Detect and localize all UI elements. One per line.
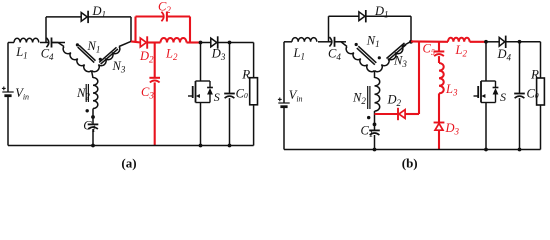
inductor L1 (14, 38, 39, 42)
dot N3 polarity (378, 56, 381, 59)
diode D1 (359, 12, 365, 21)
junction (228, 144, 232, 148)
winding N1 coil (344, 47, 374, 74)
wire (8, 145, 254, 147)
junction (91, 115, 95, 119)
wire (147, 41, 160, 43)
wire (405, 113, 419, 115)
svg-text:D3: D3 (445, 121, 460, 137)
winding N1 coil (61, 47, 91, 74)
winding N2 core (85, 84, 87, 102)
wire (506, 41, 541, 43)
wire (374, 111, 376, 130)
capacitor C0 (514, 93, 525, 95)
winding N3 core (99, 47, 116, 62)
wire (438, 130, 440, 149)
diode D2 (140, 38, 146, 47)
diode D2 (399, 110, 405, 119)
svg-text:R: R (241, 67, 250, 82)
wire (218, 42, 254, 44)
wire (366, 15, 411, 17)
svg-text:D1: D1 (374, 4, 389, 20)
svg-text:D4: D4 (497, 47, 512, 63)
svg-text:L2: L2 (165, 47, 178, 63)
wire (284, 149, 541, 151)
svg-text:N3: N3 (112, 59, 126, 75)
transistor S (481, 80, 496, 82)
capacitor C3 (149, 77, 160, 79)
wire (201, 42, 211, 44)
svg-text:D3: D3 (211, 47, 226, 63)
wire (283, 107, 285, 150)
wire (189, 17, 191, 43)
diode D4 (499, 37, 505, 46)
junction (199, 41, 203, 45)
capacitor C1 (88, 123, 99, 125)
wire (410, 16, 412, 41)
capacitor C5 (434, 51, 445, 53)
wire (485, 103, 487, 150)
wire (131, 41, 141, 42)
svg-text:C4: C4 (328, 47, 341, 63)
wire (375, 113, 399, 115)
svg-text:S: S (214, 90, 220, 104)
svg-text:R: R (530, 67, 539, 82)
wire (540, 105, 542, 150)
wire (253, 43, 255, 78)
wire (52, 42, 66, 44)
wire (136, 15, 164, 17)
capacitor C1 (369, 129, 380, 131)
wire (187, 41, 201, 43)
svg-text:L1: L1 (15, 45, 27, 61)
svg-text:C5: C5 (423, 42, 435, 58)
winding N2 coil (375, 78, 380, 112)
wire (540, 42, 542, 78)
wire (283, 42, 285, 103)
resistor R (250, 78, 258, 105)
svg-text:N1: N1 (366, 33, 380, 49)
diode D3 (211, 38, 217, 47)
transistor S (196, 80, 211, 82)
inductor L2 (448, 38, 470, 42)
svg-text:L1: L1 (293, 46, 305, 62)
inductor L2 (161, 38, 187, 43)
dot N1 polarity (355, 43, 358, 46)
wire (45, 17, 47, 43)
wire (46, 16, 81, 18)
wire (284, 41, 292, 43)
dot N1 polarity (76, 43, 79, 46)
diode D3 (435, 123, 443, 130)
battery Vin (2, 91, 13, 93)
svg-text:D2: D2 (387, 93, 402, 109)
junction (373, 148, 377, 152)
svg-text:C1: C1 (83, 119, 96, 135)
wire (88, 16, 131, 18)
junction (409, 40, 413, 44)
wire (167, 15, 190, 17)
wire (335, 42, 348, 47)
svg-text:C0: C0 (236, 87, 248, 101)
svg-text:(a): (a) (121, 156, 136, 171)
capacitor C0 (224, 93, 235, 95)
winding N1 core (358, 46, 376, 63)
wire (418, 42, 420, 114)
wire (438, 56, 440, 63)
wire (154, 43, 156, 78)
wire (119, 41, 131, 46)
wire (134, 17, 136, 43)
svg-text:L2: L2 (455, 43, 468, 59)
svg-text:S: S (500, 90, 506, 104)
wire (329, 15, 359, 17)
capacitor C4 (46, 38, 48, 47)
wire (438, 93, 440, 122)
inductor L3 (439, 63, 444, 93)
wire (130, 17, 132, 42)
junction (199, 144, 203, 148)
wire (92, 129, 94, 146)
dot N2 polarity (86, 109, 89, 112)
svg-text:N2: N2 (352, 91, 366, 107)
wire (438, 42, 440, 52)
svg-text:L3: L3 (445, 82, 458, 98)
svg-text:C1: C1 (361, 124, 374, 140)
wire (411, 40, 448, 42)
wire (486, 41, 499, 43)
wire (335, 41, 347, 43)
winding N3 coil (92, 47, 122, 74)
wire (402, 41, 411, 46)
wire (200, 43, 202, 82)
junction (91, 144, 95, 148)
inductor L1 (292, 38, 317, 42)
svg-text:(b): (b) (402, 156, 418, 171)
junction (484, 40, 488, 44)
dot N2 polarity (367, 116, 370, 119)
winding N2 core (367, 86, 369, 109)
junction (484, 148, 488, 152)
junction (518, 148, 522, 152)
junction (518, 40, 522, 44)
wire (8, 42, 14, 44)
wire (7, 96, 9, 146)
resistor R (537, 78, 545, 105)
svg-text:Vin: Vin (289, 88, 303, 104)
wire (519, 42, 521, 94)
wire (485, 42, 487, 81)
winding N3 core (387, 43, 405, 59)
wire (374, 71, 376, 79)
wire (92, 71, 94, 79)
svg-text:C3: C3 (141, 85, 154, 101)
svg-text:D2: D2 (139, 49, 154, 65)
capacitor C4 (329, 37, 331, 46)
wire (200, 103, 202, 146)
svg-text:C2: C2 (158, 0, 171, 15)
winding N2 coil (93, 78, 98, 109)
junction (373, 123, 377, 127)
wire (519, 98, 521, 149)
dot N3 polarity (99, 58, 102, 61)
battery Vin (278, 102, 289, 104)
wire (52, 43, 65, 47)
wire (154, 82, 156, 145)
winding N3 coil (375, 47, 405, 74)
junction (228, 41, 232, 45)
wire (40, 42, 48, 44)
svg-text:Vin: Vin (15, 86, 29, 102)
capacitor C2 (161, 12, 163, 21)
wire (7, 43, 9, 93)
svg-text:N3: N3 (393, 53, 407, 69)
wire (318, 41, 331, 43)
diode D1 (81, 13, 87, 22)
wire (229, 43, 231, 94)
svg-text:C4: C4 (41, 46, 54, 62)
wire (92, 109, 94, 125)
wire (374, 135, 376, 150)
wire (328, 16, 330, 42)
svg-text:N1: N1 (87, 39, 101, 55)
wire (470, 41, 486, 43)
wire (253, 105, 255, 146)
wire (229, 98, 231, 145)
winding N1 core (79, 45, 96, 61)
